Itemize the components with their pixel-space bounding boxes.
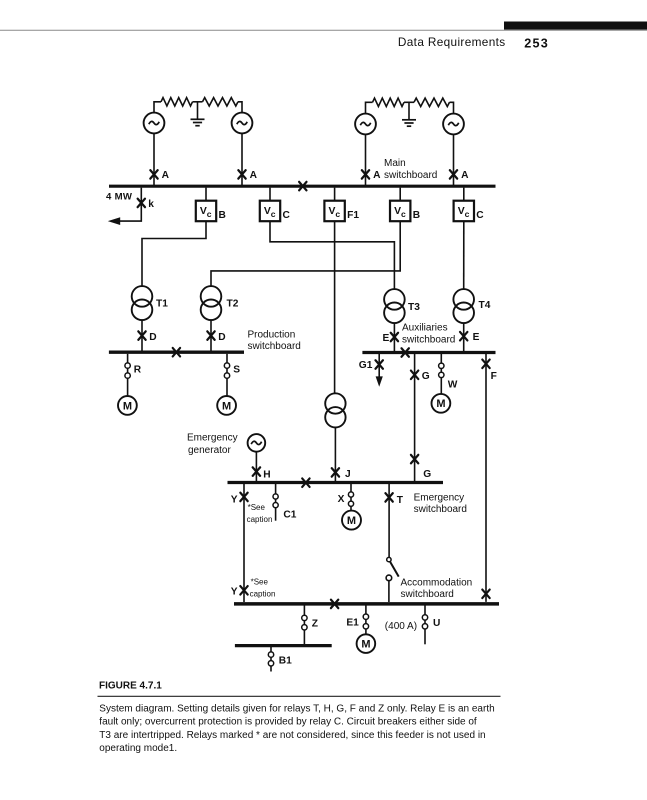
svg-text:switchboard: switchboard: [402, 335, 455, 346]
svg-text:F1: F1: [347, 210, 359, 221]
svg-text:Auxiliaries: Auxiliaries: [402, 323, 448, 334]
svg-text:M: M: [222, 400, 231, 412]
svg-text:Production: Production: [248, 329, 296, 340]
svg-text:switchboard: switchboard: [384, 170, 437, 181]
svg-text:C: C: [476, 210, 484, 221]
svg-text:c: c: [465, 209, 470, 219]
svg-text:Emergency: Emergency: [414, 493, 465, 504]
svg-text:G: G: [423, 469, 431, 480]
svg-text:T1: T1: [156, 299, 168, 310]
svg-text:Accommodation: Accommodation: [401, 578, 473, 589]
svg-text:M: M: [123, 400, 132, 412]
svg-text:D: D: [149, 332, 156, 343]
svg-text:c: c: [207, 209, 212, 219]
svg-text:J: J: [345, 469, 351, 480]
svg-text:253: 253: [524, 36, 549, 50]
svg-text:W: W: [448, 380, 458, 391]
svg-text:M: M: [361, 639, 370, 651]
svg-text:k: k: [148, 199, 154, 210]
svg-text:FIGURE 4.7.1: FIGURE 4.7.1: [99, 680, 162, 691]
svg-text:System diagram. Setting detail: System diagram. Setting details given fo…: [99, 704, 494, 715]
svg-text:G: G: [422, 371, 430, 382]
svg-text:E: E: [383, 333, 390, 344]
svg-text:caption: caption: [247, 515, 273, 524]
svg-text:Data Requirements: Data Requirements: [398, 35, 506, 49]
svg-text:S: S: [233, 365, 240, 376]
svg-text:A: A: [373, 170, 381, 181]
svg-text:operating mode1.: operating mode1.: [99, 743, 177, 754]
svg-text:X: X: [338, 494, 345, 505]
svg-text:E1: E1: [346, 618, 359, 629]
svg-text:C: C: [283, 210, 291, 221]
svg-text:Main: Main: [384, 158, 406, 169]
svg-text:*See: *See: [248, 503, 266, 512]
svg-text:switchboard: switchboard: [248, 341, 301, 352]
svg-text:c: c: [271, 209, 276, 219]
svg-text:switchboard: switchboard: [401, 589, 454, 600]
svg-text:M: M: [436, 398, 445, 410]
svg-text:D: D: [218, 332, 225, 343]
svg-text:M: M: [347, 515, 356, 527]
svg-text:T3 are intertripped. Relays ma: T3 are intertripped. Relays marked * are…: [99, 730, 485, 741]
svg-text:E: E: [473, 332, 480, 343]
svg-text:A: A: [461, 170, 469, 181]
svg-text:Y: Y: [231, 586, 238, 597]
svg-text:U: U: [433, 618, 440, 629]
svg-text:Emergency: Emergency: [187, 433, 238, 444]
svg-text:generator: generator: [188, 445, 231, 456]
svg-text:fault only; overcurrent protec: fault only; overcurrent protection is pr…: [99, 717, 477, 728]
svg-text:4 MW: 4 MW: [106, 191, 133, 202]
svg-text:c: c: [401, 209, 406, 219]
svg-text:R: R: [134, 365, 142, 376]
svg-text:C1: C1: [283, 510, 296, 521]
svg-text:F: F: [491, 371, 497, 382]
svg-text:B1: B1: [279, 656, 292, 667]
svg-text:Y: Y: [231, 494, 238, 505]
svg-text:A: A: [250, 170, 258, 181]
svg-text:Z: Z: [312, 618, 318, 629]
svg-text:switchboard: switchboard: [414, 504, 467, 515]
svg-text:T2: T2: [227, 299, 239, 310]
svg-text:T4: T4: [479, 300, 491, 311]
svg-text:B: B: [413, 210, 420, 221]
svg-text:caption: caption: [250, 590, 276, 599]
svg-text:*See: *See: [251, 578, 269, 587]
svg-text:T3: T3: [408, 302, 420, 313]
svg-text:G1: G1: [359, 360, 373, 371]
svg-text:B: B: [219, 210, 226, 221]
svg-text:(400 A): (400 A): [385, 621, 417, 632]
svg-text:A: A: [162, 170, 170, 181]
svg-text:T: T: [397, 495, 404, 506]
svg-text:H: H: [263, 470, 270, 481]
svg-text:c: c: [335, 209, 340, 219]
